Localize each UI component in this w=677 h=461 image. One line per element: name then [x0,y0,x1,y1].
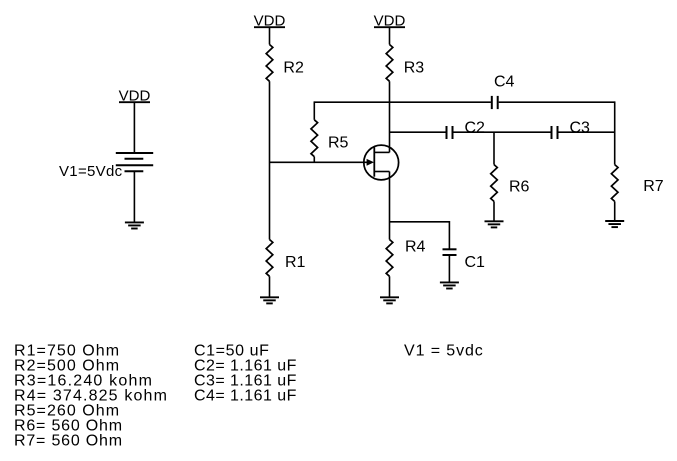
svg-text:C3: C3 [570,119,591,136]
svg-text:VDD: VDD [374,13,406,30]
label C4 [494,73,515,90]
capacitor C2 [447,126,453,139]
ground (R6) [485,221,504,227]
label R4 [405,239,426,256]
value C2= 1.161 uF [194,358,297,375]
power VDD rail (R3) [374,13,406,30]
transistor Q1 (MOSFET) [364,145,399,180]
wire R5 drop [313,101,315,119]
wire R4 to ground [389,276,391,297]
ground (battery) [125,222,144,228]
wire VDD rail to battery plus [133,102,135,153]
wire source to R4 (C1 tap) [389,172,391,240]
svg-text:C1: C1 [465,254,486,271]
wire R7 to ground [614,201,616,221]
label R2 [283,59,304,76]
value R7= 560 Ohm [14,433,123,450]
wire C3 right to corner [559,131,615,133]
label R5 [328,134,349,151]
svg-text:C4= 1.161 uF: C4= 1.161 uF [194,388,297,405]
value R3=16.240 kohm [14,373,153,390]
svg-text:R7= 560 Ohm: R7= 560 Ohm [14,433,123,450]
value C4= 1.161 uF [194,388,297,405]
wire VDD to R3 [389,27,391,44]
svg-text:R5: R5 [328,134,349,151]
wire source tap to C1 [390,221,450,223]
power VDD rail (R2) [254,13,286,30]
label R7 [643,178,664,195]
svg-text:R7: R7 [643,178,664,195]
svg-text:R3: R3 [404,59,425,76]
resistor R4 [386,240,393,277]
label C1 [465,254,486,271]
value R6= 560 Ohm [14,418,123,435]
capacitor C1 [443,249,457,255]
resistor R6 [491,165,498,202]
capacitor C4 [492,96,498,109]
svg-text:V1 = 5vdc: V1 = 5vdc [404,343,484,360]
svg-text:VDD: VDD [119,88,151,105]
wire C2 right to C3 left (R6 tap) [454,131,551,133]
wire battery minus to ground [133,171,135,222]
battery V1 [116,153,153,171]
wire R6 drop [493,132,495,164]
wire R5 top to C4 left [314,101,491,103]
resistor R1 [266,240,273,277]
wire C4 right to corner [499,101,615,103]
svg-text:R6: R6 [509,178,530,195]
label V1=5Vdc [59,163,123,180]
svg-text:C2: C2 [465,119,486,136]
value V1 = 5vdc [404,343,484,360]
wire R2 to R1 (gate tap) [269,81,271,239]
wire drain to C2 left [390,131,446,133]
svg-text:C4: C4 [494,73,515,90]
ground (C1) [440,282,459,288]
wire gate net [270,161,368,163]
wire R6 to ground [493,201,495,221]
wire R3 to drain (crosses C4 net, taps C2 net) [389,81,391,152]
capacitor C3 [552,126,558,139]
wire C1 to ground [448,255,450,282]
ground (R7) [605,221,624,227]
label R6 [509,178,530,195]
power VDD rail (battery) [119,88,151,105]
label R3 [404,59,425,76]
wire R5 bottom to gate net [313,157,315,163]
svg-text:R4: R4 [405,239,426,256]
svg-text:R1: R1 [285,254,306,271]
value C3= 1.161 uF [194,373,297,390]
value R5=260 Ohm [14,403,120,420]
wire VDD to R2 [269,27,271,44]
value R2=500 Ohm [14,358,120,375]
svg-text:V1=5Vdc: V1=5Vdc [59,163,123,180]
resistor R7 [611,165,618,202]
resistor R2 [266,45,273,82]
wire C1 drop [448,221,450,249]
ground (R4) [380,297,399,303]
label R1 [285,254,306,271]
ground (R1) [260,297,279,303]
wire R1 to ground [269,276,271,297]
wire right column (corner to R7) [614,101,616,164]
label C3 [570,119,591,136]
resistor R3 [386,45,393,82]
value C1=50 uF [194,343,270,360]
svg-text:R2: R2 [283,59,304,76]
value R1=750 Ohm [14,343,120,360]
svg-text:VDD: VDD [254,13,286,30]
resistor R5 [311,120,318,157]
value R4= 374.825 kohm [14,388,168,405]
label C2 [465,119,486,136]
